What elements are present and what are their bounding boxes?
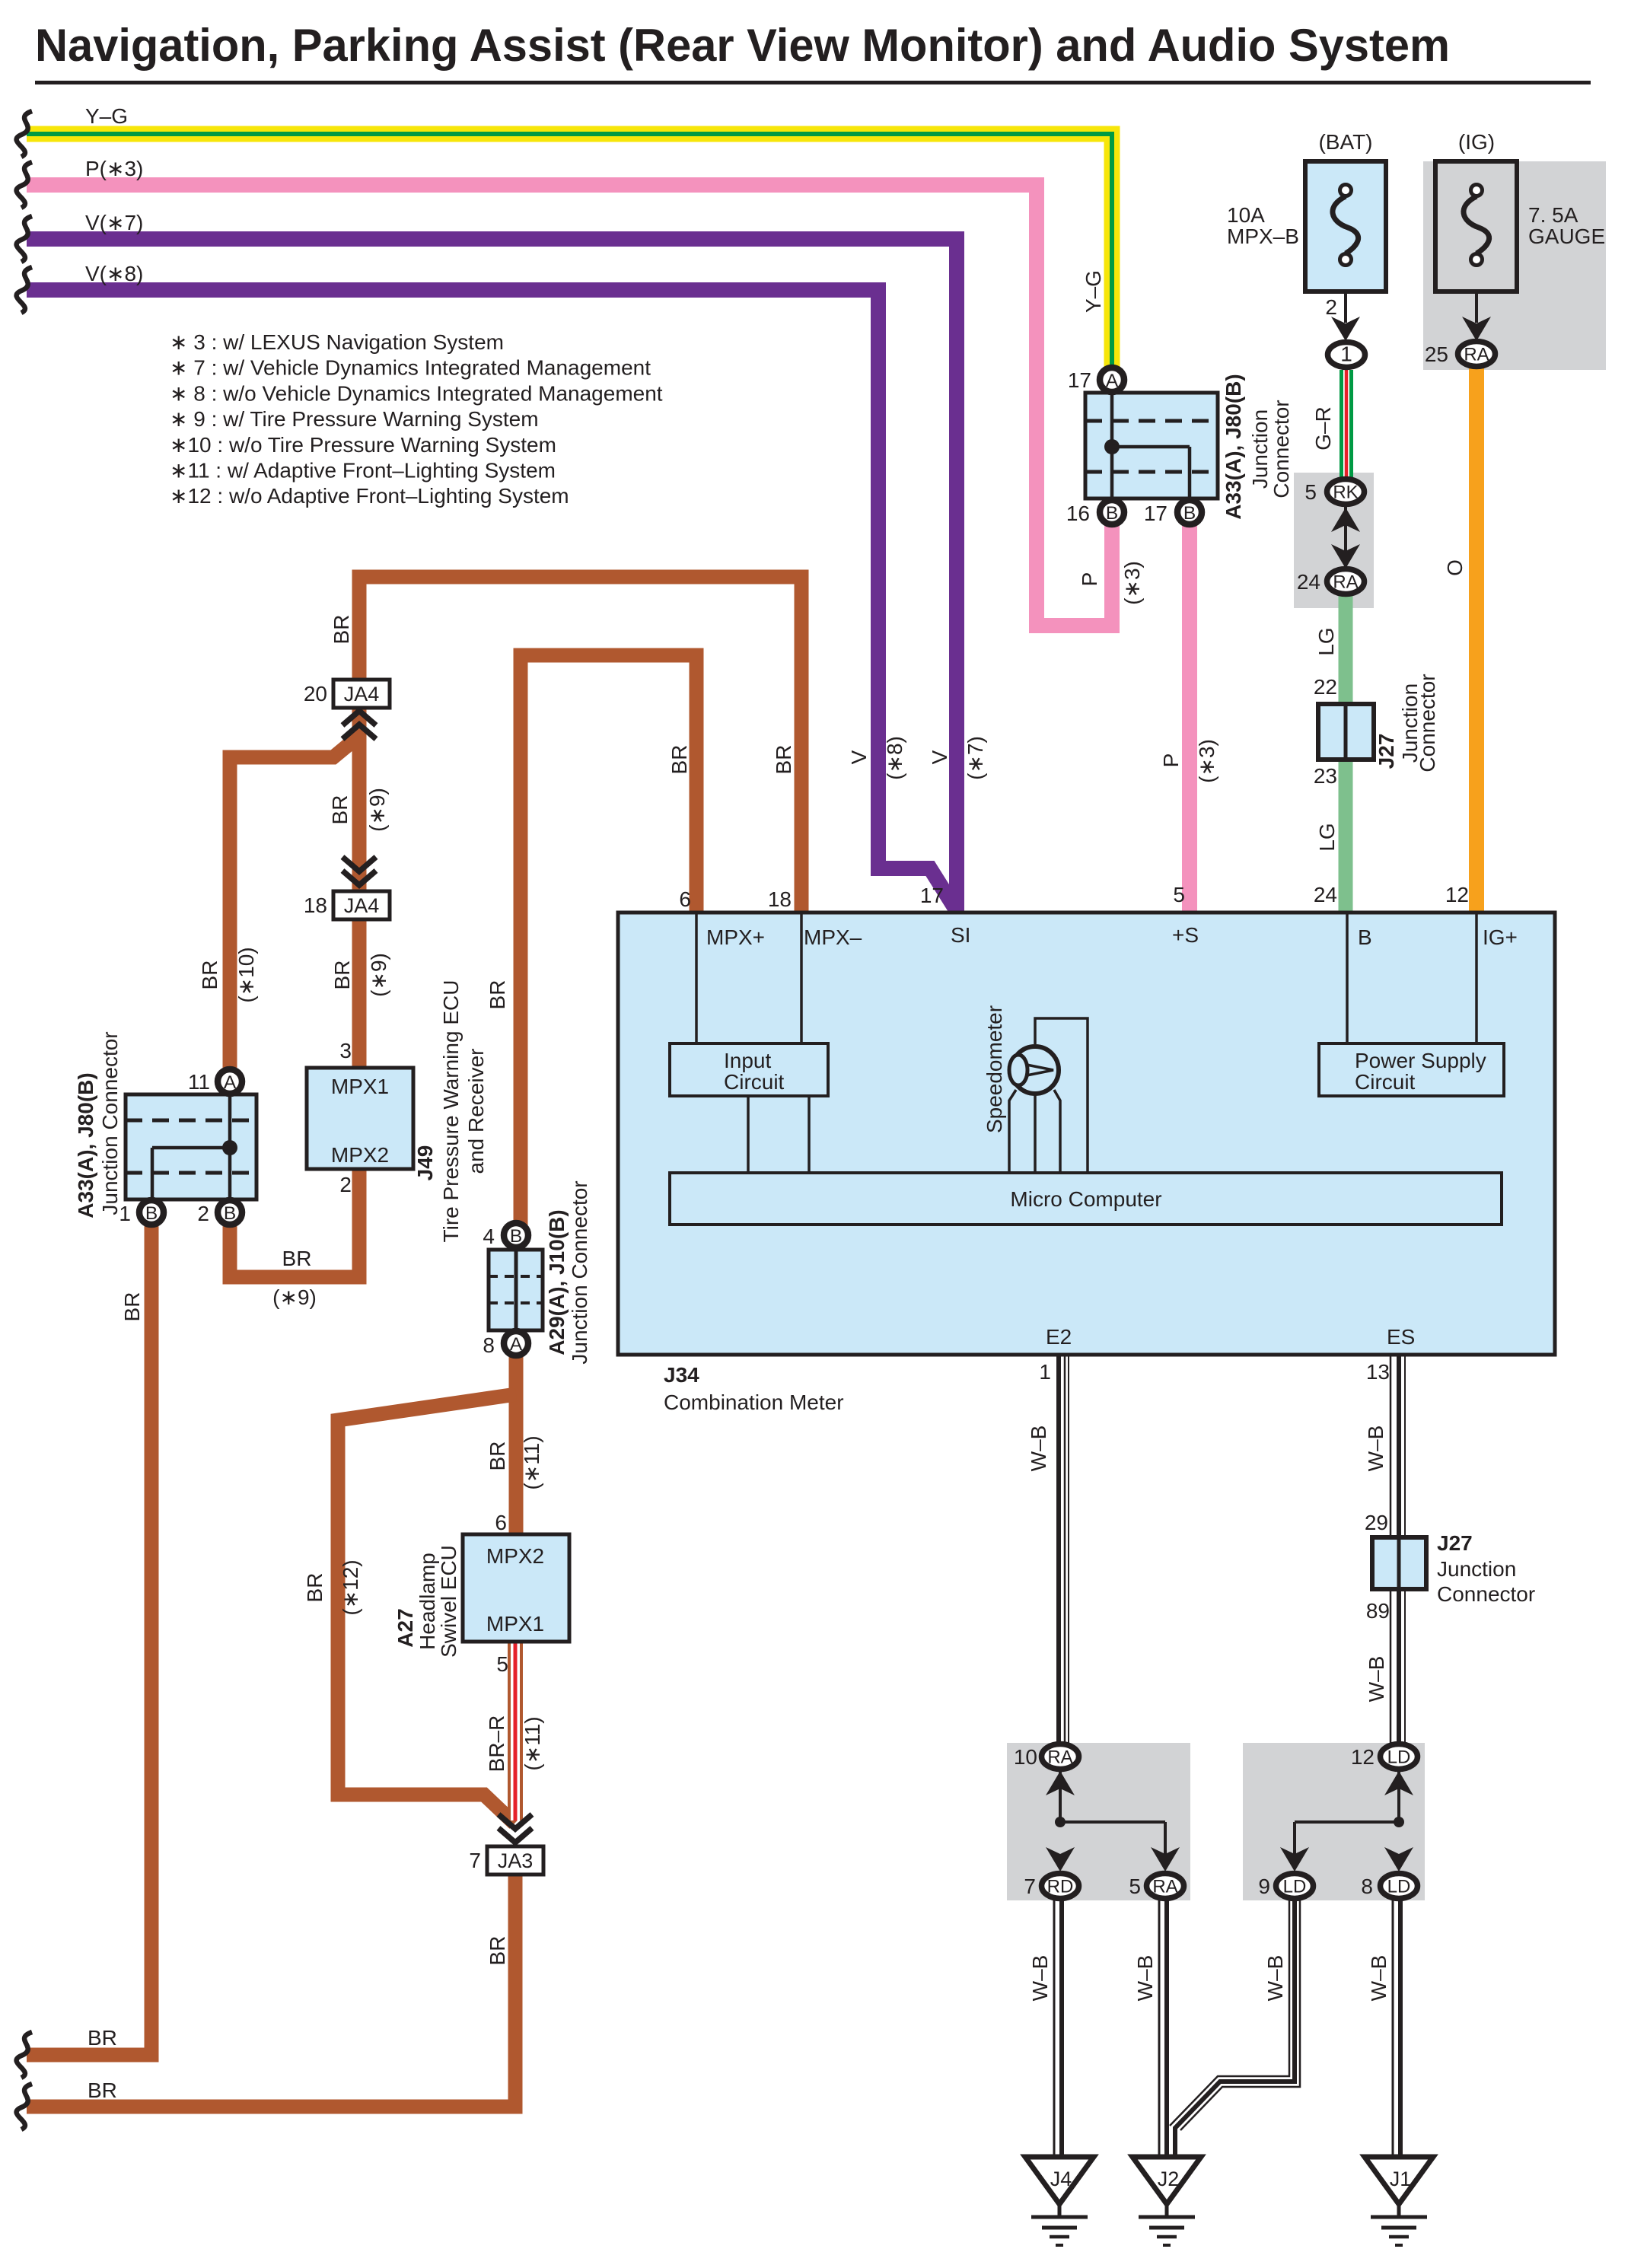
svg-text:2: 2 xyxy=(1325,295,1337,319)
svg-text:LD: LD xyxy=(1283,1877,1307,1897)
svg-text:(BAT): (BAT) xyxy=(1318,130,1372,154)
svg-text:8: 8 xyxy=(483,1333,495,1357)
svg-text:A33(A), J80(B): A33(A), J80(B) xyxy=(1222,374,1245,519)
svg-text:∗12 : w/o Adaptive Front–Light: ∗12 : w/o Adaptive Front–Lighting System xyxy=(170,484,569,508)
svg-text:BR: BR xyxy=(303,1573,327,1603)
svg-text:Input: Input xyxy=(724,1049,771,1072)
svg-text:16: 16 xyxy=(1066,502,1090,525)
svg-text:BR: BR xyxy=(486,1936,509,1966)
svg-text:Combination Meter: Combination Meter xyxy=(664,1390,844,1414)
svg-text:ES: ES xyxy=(1387,1325,1415,1349)
svg-text:∗ 9 : w/ Tire Pressure Warning: ∗ 9 : w/ Tire Pressure Warning System xyxy=(170,407,539,431)
svg-text:(∗8): (∗8) xyxy=(883,736,906,780)
svg-text:Connector: Connector xyxy=(1269,400,1293,498)
svg-text:V(∗7): V(∗7) xyxy=(85,211,143,234)
svg-text:Junction: Junction xyxy=(1248,409,1272,489)
svg-text:12: 12 xyxy=(1445,883,1469,906)
svg-text:Micro Computer: Micro Computer xyxy=(1010,1187,1161,1211)
svg-text:1: 1 xyxy=(1340,342,1352,366)
svg-text:RD: RD xyxy=(1047,1877,1074,1897)
svg-text:Y–G: Y–G xyxy=(85,104,128,128)
svg-text:V: V xyxy=(847,750,871,764)
svg-text:Swivel ECU: Swivel ECU xyxy=(437,1545,460,1658)
svg-text:BR: BR xyxy=(88,2078,117,2102)
svg-text:BR: BR xyxy=(667,745,691,775)
svg-text:J27: J27 xyxy=(1437,1531,1473,1555)
svg-text:A29(A), J10(B): A29(A), J10(B) xyxy=(545,1209,569,1355)
svg-text:LD: LD xyxy=(1387,1877,1411,1897)
svg-text:J34: J34 xyxy=(664,1363,699,1387)
svg-text:W–B: W–B xyxy=(1027,1425,1050,1472)
svg-text:W–B: W–B xyxy=(1364,1425,1387,1472)
svg-text:BR: BR xyxy=(330,960,354,990)
svg-text:(IG): (IG) xyxy=(1458,130,1495,154)
svg-text:(∗3): (∗3) xyxy=(1195,739,1218,783)
svg-text:20: 20 xyxy=(304,682,327,706)
svg-text:BR–R: BR–R xyxy=(485,1715,508,1773)
svg-text:JA4: JA4 xyxy=(344,894,380,917)
svg-text:P: P xyxy=(1159,753,1183,768)
svg-text:J4: J4 xyxy=(1050,2168,1072,2190)
svg-text:B: B xyxy=(510,1226,522,1247)
svg-text:BR: BR xyxy=(282,1247,312,1270)
svg-text:B: B xyxy=(1106,503,1118,524)
svg-text:24: 24 xyxy=(1314,883,1337,906)
svg-text:(∗9): (∗9) xyxy=(367,953,390,997)
svg-text:25: 25 xyxy=(1425,342,1448,366)
svg-text:1: 1 xyxy=(1039,1360,1051,1384)
svg-text:BR: BR xyxy=(120,1292,144,1322)
svg-text:17: 17 xyxy=(1068,368,1091,392)
svg-text:B: B xyxy=(1183,503,1196,524)
svg-text:P: P xyxy=(1078,572,1101,587)
svg-text:Headlamp: Headlamp xyxy=(416,1553,439,1650)
svg-text:B: B xyxy=(1358,925,1372,949)
svg-text:J2: J2 xyxy=(1158,2168,1180,2190)
svg-text:6: 6 xyxy=(495,1511,507,1534)
svg-text:LG: LG xyxy=(1314,627,1338,655)
svg-text:12: 12 xyxy=(1351,1745,1375,1769)
svg-text:J1: J1 xyxy=(1390,2168,1412,2190)
svg-text:BR: BR xyxy=(198,960,221,990)
svg-text:SI: SI xyxy=(951,923,970,947)
svg-text:23: 23 xyxy=(1314,764,1337,788)
svg-text:(∗9): (∗9) xyxy=(365,788,389,832)
svg-text:and Receiver: and Receiver xyxy=(464,1049,488,1174)
svg-text:A: A xyxy=(510,1334,523,1355)
svg-text:(∗11): (∗11) xyxy=(521,1716,544,1770)
svg-text:JA4: JA4 xyxy=(344,683,380,706)
svg-text:Y–G: Y–G xyxy=(1081,270,1105,313)
svg-text:7. 5A: 7. 5A xyxy=(1528,203,1578,227)
svg-text:MPX2: MPX2 xyxy=(331,1143,389,1167)
svg-text:BR: BR xyxy=(328,795,352,825)
svg-text:18: 18 xyxy=(304,894,327,917)
svg-text:∗ 7 : w/ Vehicle Dynamics Inte: ∗ 7 : w/ Vehicle Dynamics Integrated Man… xyxy=(170,356,651,380)
svg-text:Tire Pressure Warning ECU: Tire Pressure Warning ECU xyxy=(439,980,463,1243)
svg-text:B: B xyxy=(145,1203,158,1224)
svg-text:5: 5 xyxy=(1173,883,1185,906)
svg-text:2: 2 xyxy=(197,1202,209,1225)
svg-text:MPX–B: MPX–B xyxy=(1227,225,1299,248)
svg-text:5: 5 xyxy=(1129,1875,1141,1898)
svg-text:(∗9): (∗9) xyxy=(272,1285,317,1309)
svg-text:9: 9 xyxy=(1258,1875,1270,1898)
svg-text:MPX+: MPX+ xyxy=(706,925,765,949)
svg-text:GAUGE: GAUGE xyxy=(1528,225,1605,248)
svg-text:E2: E2 xyxy=(1046,1325,1072,1349)
svg-text:22: 22 xyxy=(1314,675,1337,699)
svg-text:4: 4 xyxy=(483,1225,495,1248)
svg-text:MPX1: MPX1 xyxy=(331,1075,389,1098)
svg-text:2: 2 xyxy=(339,1173,352,1196)
svg-text:V: V xyxy=(928,750,951,764)
svg-text:(∗10): (∗10) xyxy=(234,947,258,1002)
svg-text:(∗7): (∗7) xyxy=(964,736,987,780)
svg-text:10: 10 xyxy=(1014,1745,1037,1769)
svg-text:RA: RA xyxy=(1464,345,1489,365)
svg-text:(∗3): (∗3) xyxy=(1120,561,1144,605)
svg-text:W–B: W–B xyxy=(1365,1656,1388,1703)
svg-text:A27: A27 xyxy=(393,1608,417,1647)
svg-text:W–B: W–B xyxy=(1028,1955,1052,2002)
svg-text:O: O xyxy=(1443,559,1467,576)
svg-text:W–B: W–B xyxy=(1367,1955,1390,2002)
svg-text:MPX1: MPX1 xyxy=(486,1612,544,1636)
svg-text:J27: J27 xyxy=(1375,734,1398,769)
svg-text:W–B: W–B xyxy=(1263,1955,1287,2002)
svg-text:∗ 8 : w/o Vehicle Dynamics Int: ∗ 8 : w/o Vehicle Dynamics Integrated Ma… xyxy=(170,381,663,405)
svg-text:Navigation, Parking Assist (Re: Navigation, Parking Assist (Rear View Mo… xyxy=(35,20,1450,71)
svg-text:Circuit: Circuit xyxy=(724,1070,785,1094)
svg-text:RK: RK xyxy=(1333,483,1358,503)
svg-text:BR: BR xyxy=(486,980,509,1010)
svg-text:6: 6 xyxy=(679,887,691,911)
svg-text:BR: BR xyxy=(486,1441,509,1471)
svg-text:B: B xyxy=(224,1203,236,1224)
svg-text:Connector: Connector xyxy=(1416,674,1439,772)
svg-text:Speedometer: Speedometer xyxy=(983,1005,1006,1133)
svg-text:Junction Connector: Junction Connector xyxy=(568,1180,591,1364)
svg-text:BR: BR xyxy=(88,2026,117,2050)
svg-text:∗10 : w/o Tire Pressure Warnin: ∗10 : w/o Tire Pressure Warning System xyxy=(170,433,556,457)
svg-text:17: 17 xyxy=(1144,502,1168,525)
svg-text:5: 5 xyxy=(496,1652,508,1676)
svg-text:+S: +S xyxy=(1172,923,1199,947)
svg-text:17: 17 xyxy=(920,884,944,907)
svg-text:A: A xyxy=(1106,371,1119,391)
svg-text:IG+: IG+ xyxy=(1483,925,1518,949)
svg-text:G–R: G–R xyxy=(1311,406,1335,451)
svg-text:(∗11): (∗11) xyxy=(520,1435,543,1489)
svg-text:89: 89 xyxy=(1366,1599,1390,1623)
svg-text:A: A xyxy=(224,1072,237,1093)
svg-text:Junction Connector: Junction Connector xyxy=(98,1031,122,1215)
svg-text:P(∗3): P(∗3) xyxy=(85,157,143,180)
svg-text:29: 29 xyxy=(1365,1511,1388,1534)
svg-text:18: 18 xyxy=(768,887,792,911)
svg-text:∗ 3 : w/ LEXUS Navigation Syst: ∗ 3 : w/ LEXUS Navigation System xyxy=(170,330,504,354)
svg-text:Circuit: Circuit xyxy=(1355,1070,1416,1094)
svg-text:3: 3 xyxy=(339,1039,352,1062)
svg-text:Power Supply: Power Supply xyxy=(1355,1049,1486,1072)
svg-text:W–B: W–B xyxy=(1133,1955,1157,2002)
svg-text:7: 7 xyxy=(469,1849,481,1872)
svg-text:LG: LG xyxy=(1315,823,1339,851)
svg-text:24: 24 xyxy=(1297,570,1320,594)
svg-text:Junction: Junction xyxy=(1437,1557,1516,1581)
svg-text:RA: RA xyxy=(1333,572,1358,593)
svg-text:8: 8 xyxy=(1361,1875,1373,1898)
svg-text:5: 5 xyxy=(1304,480,1317,504)
svg-text:RA: RA xyxy=(1152,1877,1177,1897)
svg-text:V(∗8): V(∗8) xyxy=(85,262,143,285)
svg-text:MPX2: MPX2 xyxy=(486,1544,544,1568)
svg-text:11: 11 xyxy=(188,1070,210,1094)
svg-text:LD: LD xyxy=(1387,1747,1411,1768)
svg-text:J49: J49 xyxy=(413,1145,437,1181)
svg-text:A33(A), J80(B): A33(A), J80(B) xyxy=(74,1072,97,1218)
svg-text:BR: BR xyxy=(772,745,795,775)
svg-text:Connector: Connector xyxy=(1437,1582,1535,1606)
svg-text:MPX–: MPX– xyxy=(804,925,862,949)
svg-text:∗11 : w/ Adaptive Front–Lighti: ∗11 : w/ Adaptive Front–Lighting System xyxy=(170,459,556,483)
svg-text:(∗12): (∗12) xyxy=(339,1559,362,1615)
svg-text:JA3: JA3 xyxy=(498,1849,534,1872)
svg-text:7: 7 xyxy=(1024,1875,1036,1898)
svg-text:13: 13 xyxy=(1366,1360,1390,1384)
svg-text:BR: BR xyxy=(330,615,353,645)
svg-text:10A: 10A xyxy=(1227,203,1265,227)
svg-text:RA: RA xyxy=(1047,1747,1072,1768)
